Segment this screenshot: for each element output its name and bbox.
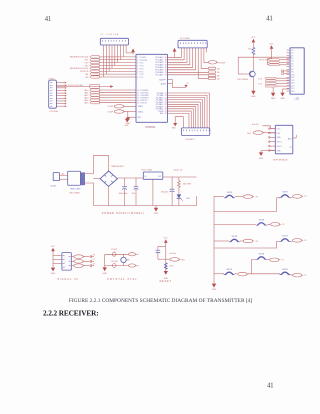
junction arrow node TX [66, 84, 113, 88]
resistor R5 10K [209, 77, 221, 80]
net oval SW3 [271, 223, 285, 227]
label U2 TX RF MODULE [273, 160, 289, 162]
switch SW1 [224, 192, 235, 198]
antenna stub U2 [293, 135, 296, 138]
connector J1 [100, 38, 128, 45]
svg-text:J2 CON10: J2 CON10 [180, 38, 191, 40]
svg-text:P1: P1 [304, 196, 306, 198]
svg-text:2.2.2 RECEIVER:: 2.2.2 RECEIVER: [43, 309, 99, 318]
port Q6 group2 [85, 102, 136, 105]
capacitor C1 1000u [119, 178, 128, 206]
svg-text:P7: P7 [304, 275, 306, 277]
net oval SW8 [293, 273, 307, 277]
wire reset mid [158, 258, 170, 260]
svg-text:SW-PB: SW-PB [259, 220, 265, 222]
wire Q1 emitter down [252, 77, 254, 91]
coil L1 [74, 254, 95, 258]
net oval SW6 [270, 258, 284, 262]
svg-text:8: 8 [137, 77, 138, 79]
svg-text:104: 104 [132, 193, 135, 195]
connector J3 [49, 80, 57, 108]
svg-text:3: 3 [65, 266, 66, 268]
connector J3 label bottom [49, 110, 58, 113]
label power supply [102, 212, 145, 215]
port P4 group1 [84, 64, 136, 67]
wire vcc rail [117, 177, 196, 179]
ground crystal [126, 118, 131, 125]
switch SW6 [256, 254, 267, 260]
svg-text:LCD: LCD [295, 99, 300, 101]
ground crystal block [102, 267, 107, 274]
svg-text:GND: GND [259, 158, 264, 160]
ground reset [164, 271, 169, 280]
svg-text:VCC: VCC [277, 129, 282, 131]
capacitor C11 10u [156, 250, 176, 259]
wire tap to bridge left [93, 178, 100, 180]
capacitor C9 30p [111, 249, 118, 256]
svg-text:6: 6 [137, 71, 138, 73]
svg-text:1 TX VCC1 P0/2-8 A: 1 TX VCC1 P0/2-8 A [66, 84, 83, 87]
capacitor C2 100u [132, 178, 139, 206]
coil L2 [74, 259, 95, 263]
wire crystal gnd [127, 112, 129, 118]
page number 41 top-right [266, 14, 273, 22]
svg-text:(DC) 1 4V: (DC) 1 4V [174, 170, 183, 172]
resistor pack RP1 [259, 59, 289, 66]
svg-text:41: 41 [267, 381, 274, 389]
wire fan U1 to J2 [168, 48, 209, 78]
svg-text:C7: C7 [93, 259, 95, 261]
ground LCD [280, 93, 285, 100]
svg-text:VCC: VCC [164, 238, 169, 240]
svg-text:P1.5: P1.5 [140, 71, 144, 73]
transistor Q1 2N3906 [238, 71, 256, 81]
svg-text:VCC: VCC [270, 44, 275, 46]
svg-text:P3: P3 [256, 241, 258, 243]
resistor R8 [128, 253, 138, 256]
resistor R3 10K [209, 71, 221, 74]
svg-text:GND: GND [277, 137, 282, 139]
connector J3 label top [48, 78, 54, 80]
svg-text:SW-PB: SW-PB [282, 269, 288, 271]
resistor R9 [128, 264, 138, 267]
svg-text:SW-PB: SW-PB [227, 192, 233, 194]
svg-text:P2: P2 [282, 224, 284, 226]
wires signal-in left [53, 255, 62, 263]
svg-text:P5: P5 [282, 260, 284, 262]
svg-text:RP1 4.7K: RP1 4.7K [259, 60, 267, 62]
net oval SW1 [243, 195, 258, 199]
crystal Y1 [121, 254, 130, 265]
svg-text:VCC: VCC [251, 37, 256, 39]
port Q4 group2 [85, 96, 136, 99]
heading 2.2.2 RECEIVER [43, 309, 99, 318]
svg-text:DOOR IN: DOOR IN [80, 71, 89, 73]
svg-text:GND: GND [251, 96, 256, 98]
ground RP2 [271, 93, 276, 100]
wire SW2 to oval [290, 197, 292, 199]
wire transformer bottom [85, 183, 93, 206]
svg-text:7: 7 [137, 74, 138, 76]
svg-text:GND: GND [271, 98, 276, 100]
svg-text:IN2: IN2 [85, 77, 88, 79]
coil L3 [74, 264, 95, 268]
svg-text:CON 10A: CON 10A [49, 110, 58, 113]
svg-text:XTAL2: XTAL2 [138, 110, 144, 113]
label LCD [295, 99, 300, 101]
switch SW4 [229, 236, 240, 242]
svg-text:P1.6: P1.6 [140, 74, 144, 76]
svg-text:A to 5 V: A to 5 V [252, 123, 259, 126]
port P7 group1 [85, 73, 136, 76]
svg-text:C3 30P: C3 30P [107, 106, 114, 108]
svg-text:OP1: OP1 [84, 60, 88, 62]
svg-text:EA/VPP: EA/VPP [159, 78, 166, 81]
wire bridge bottom [108, 186, 110, 205]
wire crystal top [105, 253, 129, 255]
figure caption [69, 298, 253, 304]
connector J3 pins [56, 82, 66, 107]
svg-text:4: 4 [137, 66, 138, 68]
wire LCD pin16 gnd [283, 89, 290, 93]
net oval RST [170, 258, 186, 262]
wire pins LCD upper [282, 70, 289, 75]
svg-text:1: 1 [137, 57, 138, 59]
wire crystal bottom [105, 254, 129, 267]
wire row B [214, 223, 270, 225]
wire U2 gnd [261, 151, 275, 153]
svg-text:330 OHM: 330 OHM [183, 184, 191, 186]
plug J5 220AC [50, 173, 59, 188]
svg-text:41: 41 [266, 14, 273, 22]
net flag VT [184, 83, 189, 87]
microcontroller U1 AT89S51 [136, 54, 168, 122]
svg-text:32: 32 [165, 75, 167, 77]
label U1 AT89S51 [145, 125, 156, 129]
svg-text:OSC2: OSC2 [277, 146, 282, 148]
ground matrix bus [212, 282, 217, 291]
port P1 group1 [70, 56, 136, 59]
label crystal osc [107, 278, 138, 281]
svg-text:RELAYS/DOOR (4-8): RELAYS/DOOR (4-8) [70, 67, 89, 70]
regulator U3 7805 [141, 170, 183, 180]
svg-text:SW-PB: SW-PB [282, 236, 288, 238]
svg-text:GND: GND [277, 150, 282, 152]
ground U1 bottom [127, 117, 136, 119]
svg-text:GND: GND [280, 98, 285, 100]
capacitor C5 470u [161, 177, 175, 206]
wire SW8 to oval [290, 274, 292, 276]
resistor R7 330 [178, 177, 192, 187]
net oval SW7 [238, 272, 249, 276]
svg-text:P1.0/T2: P1.0/T2 [140, 57, 146, 59]
connector J2 label [180, 38, 191, 40]
svg-text:SW-PB: SW-PB [232, 236, 238, 238]
ground power supply [154, 206, 159, 216]
svg-text:CON RECT: CON RECT [185, 139, 196, 141]
svg-text:1: 1 [65, 257, 66, 259]
svg-text:P1.1/T2X: P1.1/T2X [140, 60, 148, 62]
svg-text:ALE/P: ALE/P [161, 82, 167, 85]
capacitor C10 30p [111, 261, 119, 267]
svg-text:J1 CON10A: J1 CON10A [101, 33, 119, 36]
wire gnd rail [93, 196, 196, 206]
svg-text:220 AC: 220 AC [50, 185, 57, 188]
svg-text:GND: GND [172, 128, 177, 130]
svg-text:C8: C8 [93, 264, 95, 266]
port Q5 group2 [85, 99, 136, 102]
resistor pack RP2 [258, 77, 289, 87]
svg-text:SW-PB: SW-PB [259, 254, 265, 256]
svg-text:C10 30P: C10 30P [111, 261, 119, 263]
svg-text:BRIDGE RECT: BRIDGE RECT [112, 166, 126, 168]
svg-text:10u/16v: 10u/16v [170, 253, 176, 255]
port P2 group1 [84, 59, 136, 62]
svg-text:OP3: OP3 [84, 65, 88, 67]
transmitter module U2 pins [268, 128, 275, 152]
svg-text:TX RF MODULE: TX RF MODULE [273, 160, 289, 162]
svg-text:P0.7/AD7: P0.7/AD7 [155, 74, 163, 77]
port Q1 group2 [85, 89, 136, 92]
resistor R4 10K [209, 74, 221, 77]
svg-text:P1.7: P1.7 [140, 77, 144, 79]
wire hook gnd J4 [175, 117, 183, 128]
svg-text:SW-PB: SW-PB [226, 269, 232, 271]
connector J4 [181, 128, 209, 136]
svg-text:GND: GND [212, 289, 217, 291]
svg-text:AT89S51: AT89S51 [145, 125, 156, 129]
svg-text:OSC1: OSC1 [277, 142, 282, 144]
wire base rail [238, 56, 291, 58]
wire row A [214, 195, 243, 197]
wire plug to transformer [59, 172, 67, 179]
svg-text:C6: C6 [93, 254, 95, 256]
wire VCC stub at U1 top [126, 45, 133, 54]
label reset [160, 280, 172, 283]
ground U2 [259, 152, 264, 159]
power flag VCC near J2 [173, 48, 177, 58]
wire SW5 to oval [290, 241, 292, 243]
wire row C [214, 240, 243, 242]
svg-text:41: 41 [45, 15, 52, 23]
wires signal-in right [71, 257, 73, 266]
ground Q1 [251, 91, 256, 98]
net oval SW4 [243, 239, 258, 243]
wire branch to SW5 [214, 242, 280, 249]
svg-text:XTAL1: XTAL1 [138, 105, 144, 108]
svg-text:FIGURE 2.2.1 COMPONENTS SCHEMA: FIGURE 2.2.1 COMPONENTS SCHEMATIC DIAGRA… [69, 298, 253, 304]
resistor R10 8.2K vertical [164, 263, 174, 269]
capacitor C4 30p [107, 110, 136, 114]
power flag VCC Q1 [251, 37, 256, 47]
svg-text:PNP 2N3906: PNP 2N3906 [238, 79, 248, 81]
switch SW3 [256, 220, 267, 226]
page number 41 bottom-right [267, 381, 274, 389]
transformer T1 [68, 171, 85, 194]
power flag VCC signal-in [51, 246, 56, 268]
svg-text:GND: GND [125, 125, 130, 127]
svg-text:CRYSTAL XTAL: CRYSTAL XTAL [107, 278, 138, 281]
svg-text:Rq 1: Rq 1 [247, 133, 251, 135]
svg-text:VCC: VCC [51, 246, 56, 248]
power flag VCC U1 top-left [131, 48, 135, 52]
svg-text:15: 15 [137, 103, 139, 105]
svg-text:GND: GND [102, 273, 107, 275]
ground arrow U1 bottom [125, 119, 130, 127]
wire fan U1 to J4 [168, 93, 210, 128]
port P6 group1 [80, 70, 136, 73]
svg-text:SW-PB: SW-PB [282, 192, 288, 194]
svg-text:2: 2 [65, 261, 66, 263]
svg-text:RESET: RESET [160, 280, 172, 283]
svg-text:470u/25v: 470u/25v [161, 192, 169, 194]
resistor R2 10K [209, 67, 221, 70]
svg-text:RELAYS/DOOR (0-8): RELAYS/DOOR (0-8) [70, 56, 89, 59]
wire EA loop [168, 79, 187, 87]
connector J1 label [101, 33, 119, 36]
wire RP2 gnd [272, 88, 274, 93]
svg-text:P3.5/T1: P3.5/T1 [140, 103, 146, 105]
svg-text:P1.4: P1.4 [140, 68, 144, 70]
wire branch SW6 [252, 260, 256, 274]
svg-text:5: 5 [137, 68, 138, 70]
page number 41 top-left [45, 15, 52, 23]
led D2 [177, 187, 191, 205]
port Q3 group2 [85, 94, 136, 97]
svg-text:AD1: AD1 [85, 91, 89, 94]
bridge rectifier D1 [100, 166, 125, 187]
power flag VCC RP1 [270, 44, 275, 59]
svg-text:P0: P0 [256, 196, 258, 198]
opto U4 [62, 253, 71, 271]
svg-text:SIGNAL IN: SIGNAL IN [57, 278, 78, 281]
label signal in [57, 278, 78, 281]
connector J2 [178, 40, 207, 48]
wire regulator gnd pin [152, 179, 154, 205]
ground near J4 [172, 123, 178, 130]
wire bus J1 to U1 fan [104, 45, 124, 77]
resistor Rq1 [247, 131, 275, 135]
svg-text:(TRV 1 AMP): (TRV 1 AMP) [69, 191, 80, 194]
net oval SW5 [293, 239, 307, 243]
wire transformer top detour [85, 156, 109, 174]
svg-text:30: 30 [165, 113, 167, 115]
wire base loop [238, 57, 249, 74]
svg-text:GND: GND [154, 213, 159, 215]
svg-text:1000u/25v: 1000u/25v [119, 193, 128, 195]
svg-text:3: 3 [137, 63, 138, 65]
wire reset cap top [158, 246, 166, 249]
port P3 group1 [84, 61, 136, 64]
svg-text:P4: P4 [304, 240, 306, 242]
svg-text:P1.3: P1.3 [140, 66, 144, 68]
svg-text:POWER SUPPLY(MODEL): POWER SUPPLY(MODEL) [102, 212, 145, 215]
svg-text:2: 2 [137, 60, 138, 62]
svg-text:LED: LED [186, 198, 190, 200]
switch SW8 [280, 269, 291, 275]
svg-text:GND: GND [51, 273, 56, 275]
svg-text:IN1: IN1 [85, 74, 88, 76]
switch SW7 [224, 269, 235, 275]
svg-text:VOLT 1 REG: VOLT 1 REG [141, 170, 152, 172]
capacitor C3 30p [107, 105, 136, 109]
connector J4 label [185, 139, 196, 141]
net label oval P3.2 [208, 61, 226, 65]
port P5 group1 [70, 67, 136, 70]
display LCD1 [287, 48, 305, 94]
port wide group2 [90, 84, 100, 88]
net oval SW2 [293, 195, 307, 199]
svg-text:OUT: OUT [158, 176, 162, 178]
transmitter module U2 [275, 125, 293, 154]
svg-text:P1.2: P1.2 [140, 63, 144, 65]
wire row E [214, 273, 280, 275]
svg-text:AD5: AD5 [85, 102, 89, 105]
svg-text:TRAN 1 AMP: TRAN 1 AMP [70, 188, 81, 191]
wire SW6 to oval [267, 259, 270, 261]
net label A to 5V [252, 123, 275, 129]
ground signal-in [51, 268, 56, 275]
switch SW2 [280, 192, 291, 198]
resistor R6 10K vertical [248, 47, 255, 70]
wire branch to SW2 [214, 198, 280, 212]
svg-text:C4 30P: C4 30P [107, 111, 114, 113]
svg-text:OP2: OP2 [84, 62, 88, 64]
wire J3 to port bus [57, 86, 110, 88]
svg-text:X2: X2 [137, 265, 139, 267]
svg-text:P3.2/INT: P3.2/INT [218, 62, 226, 64]
svg-text:X1: X1 [137, 254, 139, 256]
power flag VCC reset [164, 238, 169, 272]
svg-text:C9 30P: C9 30P [111, 249, 118, 251]
port P8 group1 [85, 76, 136, 79]
switch SW5 [280, 236, 291, 242]
wire matrix bus [213, 196, 215, 282]
port Q2 group2 [85, 91, 136, 94]
